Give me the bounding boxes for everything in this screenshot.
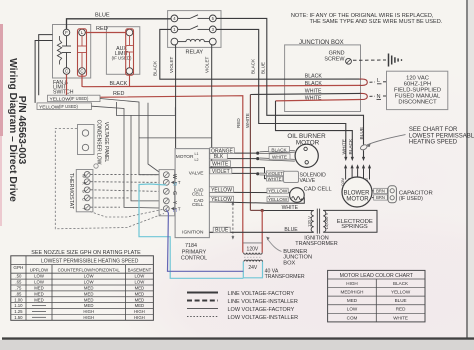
svg-text:MED: MED	[34, 297, 44, 302]
svg-text:MOTOR: MOTOR	[346, 196, 369, 202]
svg-text:WHITE: WHITE	[212, 161, 229, 167]
svg-text:LINE VOLTAGE-INSTALLER: LINE VOLTAGE-INSTALLER	[228, 299, 298, 305]
svg-text:120V: 120V	[247, 246, 259, 252]
svg-text:VALVE: VALVE	[189, 170, 204, 176]
svg-text:W: W	[81, 174, 86, 178]
svg-text:BLACK: BLACK	[348, 138, 354, 155]
svg-text:RED: RED	[396, 307, 406, 312]
svg-text:SEE CHART FOR: SEE CHART FOR	[409, 127, 458, 133]
svg-text:.65: .65	[15, 280, 22, 285]
svg-text:BASEMENT: BASEMENT	[128, 267, 152, 272]
svg-text:1.50: 1.50	[14, 315, 23, 320]
svg-text:WHITE: WHITE	[282, 205, 299, 211]
svg-text:RED: RED	[96, 26, 108, 32]
svg-text:VIOLET: VIOLET	[268, 171, 284, 176]
svg-text:HEATING SPEED: HEATING SPEED	[409, 140, 458, 146]
svg-text:LOWEST PERMISSIBLE HEATING SPE: LOWEST PERMISSIBLE HEATING SPEED	[41, 259, 139, 265]
svg-text:F: F	[65, 30, 68, 35]
svg-text:BLACK: BLACK	[393, 281, 409, 286]
svg-text:BLACK: BLACK	[251, 58, 256, 74]
svg-text:MOTOR LEAD COLOR CHART: MOTOR LEAD COLOR CHART	[340, 273, 414, 279]
svg-text:RELAY: RELAY	[185, 50, 203, 56]
svg-text:MED: MED	[84, 286, 94, 291]
svg-text:CONDENSER LOW: CONDENSER LOW	[96, 120, 102, 165]
svg-text:CAD CELL: CAD CELL	[304, 187, 332, 193]
svg-text:C: C	[81, 198, 86, 201]
svg-text:LOW VOLTAGE-INSTALLER: LOW VOLTAGE-INSTALLER	[228, 315, 299, 321]
svg-text:BLUE: BLUE	[260, 62, 265, 74]
svg-text:SPRINGS: SPRINGS	[341, 224, 368, 230]
svg-text:7184: 7184	[185, 243, 197, 249]
svg-text:BLACK: BLACK	[271, 147, 287, 152]
svg-text:COM: COM	[347, 315, 358, 320]
svg-text:MED: MED	[135, 303, 145, 308]
svg-text:JUNCTION BOX: JUNCTION BOX	[299, 40, 344, 46]
svg-text:(IF USED): (IF USED)	[399, 196, 423, 202]
svg-text:HIGH: HIGH	[83, 309, 94, 314]
svg-text:BLUE: BLUE	[95, 13, 110, 19]
svg-text:COUNTERFLOW/HORIZONTAL: COUNTERFLOW/HORIZONTAL	[58, 267, 121, 272]
svg-text:CONTROL: CONTROL	[181, 256, 207, 262]
svg-text:HIGH: HIGH	[134, 315, 145, 320]
svg-text:L2: L2	[195, 158, 199, 162]
svg-text:MED: MED	[84, 291, 94, 296]
svg-text:LOW: LOW	[84, 274, 95, 279]
svg-text:BLUE: BLUE	[284, 227, 298, 233]
svg-text:VOLTAGE PANEL: VOLTAGE PANEL	[103, 122, 109, 163]
svg-text:BRN: BRN	[376, 195, 385, 200]
svg-text:MED: MED	[34, 291, 44, 296]
svg-text:THERMOSTAT: THERMOSTAT	[68, 173, 74, 210]
svg-text:MED: MED	[135, 286, 145, 291]
svg-text:VIOLET: VIOLET	[169, 56, 174, 73]
svg-text:LOW: LOW	[135, 274, 146, 279]
svg-text:T: T	[178, 206, 181, 211]
svg-text:MOTOR: MOTOR	[176, 154, 194, 160]
svg-text:LOWEST PERMISSABLE: LOWEST PERMISSABLE	[409, 133, 474, 139]
svg-text:MED: MED	[34, 286, 44, 291]
svg-text:MED: MED	[84, 303, 94, 308]
svg-text:MED: MED	[135, 297, 145, 302]
svg-text:120 V: 120 V	[307, 216, 312, 227]
svg-text:WHITE: WHITE	[268, 176, 282, 181]
svg-text:HIGH: HIGH	[83, 315, 94, 320]
svg-text:WHITE: WHITE	[341, 139, 347, 154]
svg-text:IGNITION: IGNITION	[182, 230, 204, 236]
svg-text:1.25: 1.25	[14, 309, 23, 314]
svg-text:BLACK: BLACK	[110, 81, 128, 87]
svg-text:24V: 24V	[248, 265, 258, 271]
svg-text:VIOLET: VIOLET	[212, 169, 230, 175]
svg-text:MOTOR: MOTOR	[296, 140, 320, 147]
svg-text:YELLOW: YELLOW	[391, 290, 411, 295]
svg-text:CELL: CELL	[192, 202, 204, 207]
svg-text:(IF USED): (IF USED)	[59, 104, 79, 109]
svg-text:YELLOW: YELLOW	[268, 197, 288, 202]
svg-text:WHITE: WHITE	[272, 155, 287, 160]
svg-text:BOX: BOX	[283, 260, 295, 266]
svg-text:SWITCH: SWITCH	[53, 90, 74, 96]
svg-text:P/N 46563-003: P/N 46563-003	[16, 96, 27, 165]
svg-text:HIGH: HIGH	[134, 309, 145, 314]
svg-text:BRN: BRN	[376, 189, 385, 194]
svg-text:1.00: 1.00	[14, 297, 23, 302]
svg-text:RED: RED	[113, 91, 124, 97]
svg-text:(IF USED): (IF USED)	[112, 56, 132, 61]
svg-text:LOW: LOW	[34, 280, 45, 285]
svg-text:W: W	[171, 174, 177, 179]
svg-text:.75: .75	[15, 286, 22, 291]
svg-text:BLUE: BLUE	[395, 298, 407, 303]
svg-text:T: T	[178, 180, 181, 185]
svg-text:.50: .50	[15, 274, 22, 279]
svg-text:(IF USED): (IF USED)	[70, 96, 90, 101]
svg-text:C: C	[80, 69, 83, 74]
svg-text:L: L	[377, 78, 380, 84]
svg-text:BLACK: BLACK	[153, 60, 158, 76]
svg-text:TRANSFORMER: TRANSFORMER	[295, 241, 338, 247]
svg-text:WHITE: WHITE	[393, 315, 408, 320]
svg-text:LOW: LOW	[84, 280, 95, 285]
svg-text:MED: MED	[347, 298, 358, 303]
svg-text:MED: MED	[135, 291, 145, 296]
svg-text:RED: RED	[236, 118, 241, 128]
svg-text:.85: .85	[15, 291, 22, 296]
svg-text:YELLOW: YELLOW	[39, 104, 60, 110]
svg-text:YELLOW: YELLOW	[50, 96, 71, 102]
svg-text:C: C	[65, 69, 68, 74]
svg-text:L1: L1	[195, 152, 199, 156]
svg-text:DISCONNECT: DISCONNECT	[398, 99, 437, 105]
svg-text:LOW: LOW	[347, 307, 358, 312]
svg-text:BLUE: BLUE	[215, 228, 229, 234]
svg-text:MED/HIGH: MED/HIGH	[341, 290, 364, 295]
svg-text:G: G	[81, 190, 86, 193]
svg-text:LOW: LOW	[34, 274, 45, 279]
svg-text:LOW VOLTAGE-FACTORY: LOW VOLTAGE-FACTORY	[228, 307, 295, 313]
svg-text:VALVE: VALVE	[300, 178, 316, 184]
svg-text:R: R	[81, 182, 86, 185]
svg-text:UPFLOW: UPFLOW	[30, 267, 49, 272]
svg-text:1.10: 1.10	[14, 303, 23, 308]
svg-text:TRANSFORMER: TRANSFORMER	[265, 274, 305, 280]
svg-text:VIOLET: VIOLET	[205, 56, 210, 73]
svg-text:Y: Y	[81, 207, 86, 210]
svg-text:HIGH: HIGH	[346, 281, 357, 286]
svg-text:PRIMARY: PRIMARY	[182, 249, 207, 255]
svg-text:LINE VOLTAGE-FACTORY: LINE VOLTAGE-FACTORY	[228, 291, 295, 297]
svg-text:BLUE: BLUE	[359, 127, 365, 140]
svg-text:14,000 V: 14,000 V	[324, 212, 329, 229]
svg-text:LOW: LOW	[135, 280, 146, 285]
svg-text:SCREW: SCREW	[324, 56, 345, 62]
svg-text:THE SAME TYPE AND SIZE WIRE MU: THE SAME TYPE AND SIZE WIRE MUST BE USED…	[310, 19, 443, 25]
svg-text:GPH: GPH	[13, 265, 23, 270]
svg-text:MED: MED	[84, 297, 94, 302]
svg-text:YELLOW: YELLOW	[268, 189, 288, 194]
svg-text:BLK: BLK	[214, 154, 224, 160]
svg-text:CELL: CELL	[192, 192, 204, 197]
svg-text:G: G	[171, 191, 177, 195]
svg-text:YELLOW: YELLOW	[211, 188, 232, 194]
svg-text:WHITE: WHITE	[245, 113, 250, 128]
svg-text:YELLOW: YELLOW	[211, 197, 232, 203]
